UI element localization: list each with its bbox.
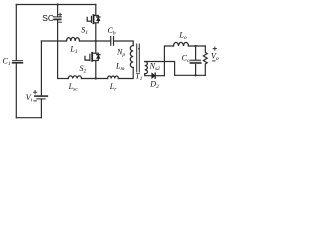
svg-text:Cb: Cb <box>108 26 116 37</box>
junction node half-bridge midpoint <box>95 40 97 42</box>
capacitor Cb <box>111 37 114 46</box>
svg-text:Ns2: Ns2 <box>149 62 160 73</box>
plus mark SC <box>59 13 62 16</box>
svg-text:Lr: Lr <box>109 82 117 93</box>
capacitor C1 <box>13 61 23 63</box>
wire D2 riser to Lo <box>164 46 173 76</box>
svg-text:Lo: Lo <box>178 31 186 42</box>
capacitor Co branch <box>195 46 197 75</box>
gate lead <box>87 17 91 21</box>
svg-text:C1: C1 <box>3 56 11 67</box>
svg-text:Co: Co <box>182 54 190 65</box>
drain lead <box>94 5 96 16</box>
inductor Lr <box>108 76 119 79</box>
svg-text:SC: SC <box>42 13 54 23</box>
transformer phase dot <box>138 48 140 50</box>
svg-text:Vi: Vi <box>26 93 33 104</box>
body diode branch <box>96 16 99 23</box>
transformer core <box>137 44 140 72</box>
channel bar <box>91 53 93 61</box>
wire mid horizontal left (battery corner to L1) <box>41 40 66 42</box>
svg-text:S1: S1 <box>81 26 88 37</box>
wire output bottom rail <box>175 74 206 76</box>
svg-text:Np: Np <box>116 48 125 59</box>
transformer T1 primary winding Np/Lm <box>130 46 133 68</box>
svg-text:Vo: Vo <box>211 51 219 62</box>
resistor load <box>203 46 207 75</box>
junction node S2 source <box>95 77 97 79</box>
wire Lr to transformer primary bottom <box>118 68 133 79</box>
wire SC rail down (crosses mid wire, no connection) <box>57 20 59 78</box>
minus mark SC <box>59 21 62 23</box>
wire secondary top (crosses D2 riser, goes to output minus) <box>145 62 175 76</box>
plus mark battery <box>34 91 37 94</box>
gate bar <box>90 16 92 22</box>
junction node top (SC rail / top rail) <box>56 3 58 5</box>
wire bottom rail <box>16 117 41 119</box>
battery Vi <box>35 96 47 99</box>
wire battery branch upper <box>40 41 42 95</box>
junction node Co top <box>194 45 196 47</box>
inductor Lsc <box>68 76 81 79</box>
gate lead <box>85 56 90 60</box>
channel bar <box>93 15 95 23</box>
wire bottom-mid to Lsc <box>58 78 69 80</box>
supercapacitor SC <box>53 17 61 20</box>
wire left rail upper (to C1 top plate) <box>15 5 17 61</box>
minus mark battery <box>34 100 37 102</box>
wire Lsc to S2 source node <box>82 78 108 80</box>
mosfet S1 <box>87 5 100 42</box>
junction node Co bottom <box>194 74 196 76</box>
wire top rail <box>16 4 96 6</box>
source lead <box>94 23 96 41</box>
wire Lo to load corner <box>189 45 206 47</box>
wire mid horizontal (L1 to Cb) <box>80 40 111 42</box>
inductor Lo <box>174 42 189 46</box>
inductor L1 <box>67 37 80 41</box>
diode D2 <box>152 73 165 78</box>
transformer secondary winding Ns2 <box>145 62 148 74</box>
wire secondary bottom to D2 <box>145 74 152 76</box>
svg-text:S2: S2 <box>80 64 87 75</box>
source lead <box>92 61 96 79</box>
wire left rail lower <box>15 64 17 118</box>
svg-text:T1: T1 <box>135 72 142 83</box>
minus mark Vo <box>213 60 215 62</box>
mosfet S2 <box>85 53 100 79</box>
wire Cb to transformer corner <box>114 41 134 46</box>
svg-text:D2: D2 <box>149 80 159 91</box>
wire SC branch top <box>57 5 59 17</box>
gate bar <box>89 54 91 60</box>
body diode branch <box>96 53 99 60</box>
svg-text:L1: L1 <box>69 44 77 55</box>
svg-text:Lsc: Lsc <box>68 82 79 93</box>
wire battery branch lower <box>40 100 42 118</box>
svg-text:Lm: Lm <box>115 61 124 72</box>
plus mark Vo <box>213 47 216 50</box>
capacitor Co <box>191 60 201 63</box>
wire S1 source to S2 drain <box>92 41 96 53</box>
